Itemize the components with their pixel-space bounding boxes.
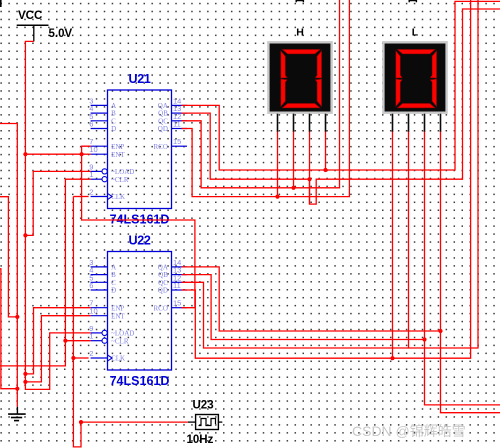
wire U21 QB left part — [182, 113, 309, 179]
wire U21 QC to display H pin2 and top edge — [182, 0, 340, 188]
svg-text:CLK: CLK — [111, 355, 125, 363]
wire branch to U22 ~CLR — [65, 340, 90, 342]
junction clock at U22 CLK — [71, 356, 75, 360]
wire display H pin3 drop — [309, 132, 311, 205]
wire display H pin1 drop — [277, 132, 279, 197]
junction H pin2 — [291, 186, 295, 190]
wire VCC to U22 ENT — [25, 316, 90, 382]
junction L pin4 — [438, 329, 442, 333]
wire display L pin4 drop to right edge — [441, 132, 500, 413]
cropped pin mark above display L — [409, 1, 416, 3]
svg-text:RCO: RCO — [153, 304, 167, 312]
svg-text:RCO: RCO — [153, 143, 167, 151]
wire U22 RCO cascade to U21 enable — [82, 154, 195, 308]
svg-text:~LOAD: ~LOAD — [111, 330, 134, 338]
svg-text:QD: QD — [158, 125, 168, 133]
cropped pin mark above display H — [296, 1, 303, 3]
junction U21 ENP-ENT tie — [80, 152, 84, 156]
wire VCC to U22 ENP — [25, 308, 90, 374]
wire ~CLR net from left edge to U21 ~CLR — [0, 179, 91, 366]
svg-text:CLK: CLK — [111, 193, 125, 201]
IC U21 74LS161D counter — [89, 72, 187, 227]
svg-text:QD: QD — [158, 287, 168, 295]
junction H pin1 — [275, 195, 279, 199]
wire ground branch 2 — [0, 197, 17, 317]
wire U22 QA to display L pin4 — [182, 267, 441, 331]
wire clock bus down to U23 — [73, 197, 187, 447]
wire QB hop and continue to right edge — [310, 9, 500, 204]
wire ground rail from left edge — [0, 124, 17, 407]
svg-text:2: 2 — [89, 349, 93, 358]
junction VCC / U22 ENP feed — [23, 372, 27, 376]
svg-text:74LS161D: 74LS161D — [110, 374, 170, 388]
svg-text:~LOAD: ~LOAD — [111, 168, 134, 176]
svg-text:H: H — [296, 26, 304, 38]
junction ground branch 3 — [15, 387, 19, 391]
power VCC symbol — [17, 10, 49, 41]
ground symbol — [8, 407, 26, 421]
svg-text:15: 15 — [173, 299, 181, 308]
svg-text:ENT: ENT — [111, 312, 125, 320]
junction CLR net at U22 — [63, 339, 67, 343]
IC U22 74LS161D counter — [89, 234, 187, 389]
junction VCC / U21 ENT-ENP — [23, 152, 27, 156]
wire U21 ENT stub join — [82, 153, 91, 155]
clock source U23 10Hz — [187, 400, 223, 447]
wire clock to U22 CLK — [73, 357, 88, 359]
svg-text:D: D — [111, 125, 116, 133]
wire VCC to U21 ENT — [25, 153, 81, 155]
wire U22 QB to display L pin3 — [182, 275, 425, 340]
junction clock at U23 branch — [79, 420, 83, 424]
svg-text:U21: U21 — [128, 72, 150, 86]
svg-text:~CLR: ~CLR — [111, 337, 129, 345]
svg-text:2: 2 — [89, 188, 93, 197]
svg-text:10Hz: 10Hz — [187, 434, 214, 446]
wire U21 QD to display H pin1 and top edge — [182, 0, 350, 197]
wire display L pin3 drop to right edge — [425, 132, 500, 405]
svg-text:15: 15 — [173, 137, 181, 146]
junction ground branch 2 — [15, 315, 19, 319]
wire display L pin1 drop — [392, 132, 394, 359]
svg-text:CSDN @锦辉皓雪: CSDN @锦辉皓雪 — [352, 423, 466, 439]
junction H pin3 — [307, 177, 311, 181]
svg-text:ENP: ENP — [111, 143, 124, 151]
seven-segment display L showing 0 — [383, 26, 446, 132]
wire clock to U21 CLK — [73, 196, 88, 198]
cropped component stub top-left — [0, 0, 2, 7]
wire ground branch 3 — [0, 269, 17, 389]
svg-text:11: 11 — [173, 281, 181, 290]
svg-text:VCC: VCC — [18, 10, 42, 22]
svg-text:6: 6 — [89, 120, 93, 129]
wire display H pin2 drop — [293, 132, 295, 188]
junction VCC / U22 ENT feed — [23, 380, 27, 384]
svg-text:L: L — [412, 26, 419, 38]
wire U22 QD to display L pin1 and top edge — [182, 0, 471, 358]
junction H pin4 — [323, 168, 327, 172]
seven-segment display H showing 0 — [268, 26, 331, 132]
wire VCC to U21 ~LOAD — [25, 171, 90, 235]
wire U22 QC to display L pin2 and top edge — [182, 0, 479, 348]
svg-text:6: 6 — [89, 281, 93, 290]
wire U21 QA to display H pin4 and right edge — [182, 1, 500, 170]
svg-text:ENP: ENP — [111, 304, 124, 312]
svg-text:D: D — [111, 287, 116, 295]
junction L pin1 — [390, 356, 394, 360]
svg-text:U22: U22 — [128, 234, 150, 248]
wire VCC rail down left side to U22 ~LOAD — [25, 41, 90, 389]
wire jog to U21 ENP — [82, 146, 91, 154]
junction VCC / U21 LOAD feed — [23, 233, 27, 237]
svg-text:ENT: ENT — [111, 151, 125, 159]
wire display H pin4 drop — [325, 132, 327, 171]
svg-text:5.0V: 5.0V — [49, 28, 73, 40]
junction L pin3 — [422, 337, 426, 341]
svg-text:~CLR: ~CLR — [111, 176, 129, 184]
svg-text:11: 11 — [173, 120, 181, 129]
wire display L pin2 drop — [408, 132, 410, 349]
svg-text:U23: U23 — [193, 400, 214, 412]
